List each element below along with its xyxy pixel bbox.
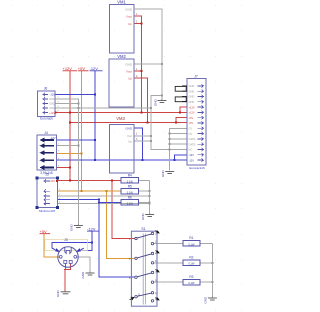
junction +5V rail / R5 net	[81, 190, 83, 192]
wire J4 pin5 +12V	[56, 167, 70, 169]
svg-text:J6: J6	[44, 87, 48, 91]
junction GND branch / VM3 Up	[150, 140, 152, 142]
svg-text:CV: CV	[189, 132, 193, 136]
svg-text:Up: Up	[128, 22, 132, 26]
connector J6	[38, 87, 60, 121]
wire resistor ground bus R1-R3	[211, 244, 213, 297]
svg-text:-12V: -12V	[87, 226, 96, 231]
wire switch throw3 to R3	[154, 281, 183, 283]
svg-text:VM2: VM2	[117, 54, 126, 59]
svg-text:0.1W: 0.1W	[188, 242, 195, 246]
supply flag +5V at DIN	[40, 229, 51, 234]
junction GND branch / VM3 Vcc	[150, 135, 152, 137]
junction R6 net / J5 pin4	[98, 199, 100, 201]
wire J7 pin12 stub	[170, 143, 187, 145]
wire GND branch to VM3 Vcc/Up	[134, 95, 162, 141]
junction GND branch / J6 pin4 net	[150, 107, 152, 109]
wire -12V flag to DIN routing	[79, 231, 93, 251]
junction VM1 net / +12V net	[141, 111, 143, 113]
junction +12V rail / J4 pin5	[69, 167, 71, 169]
svg-text:Vcc: Vcc	[127, 134, 133, 138]
svg-text:0.1W: 0.1W	[188, 262, 195, 266]
svg-text:R4: R4	[128, 174, 132, 178]
svg-text:-12V: -12V	[90, 66, 99, 71]
svg-text:GND: GND	[189, 95, 195, 99]
jumper bridge J7 pins 1-2	[175, 86, 187, 91]
junction VM2 Up / +5V net	[147, 121, 149, 123]
svg-text:-12V: -12V	[50, 136, 56, 140]
junction VM1 net / Up	[141, 23, 143, 25]
junction J6 GND drop / pin3	[77, 103, 79, 105]
junction GND bundle / pin10	[169, 133, 171, 135]
wire J6 pin1 -12V	[56, 94, 95, 96]
svg-text:J3: J3	[64, 238, 68, 242]
switch pole 3	[129, 270, 159, 284]
svg-text:R1: R1	[189, 236, 193, 240]
frame highlight around DIN	[45, 240, 88, 251]
junction -12V rail / J4 pin1	[94, 139, 96, 141]
junction VM GND branch	[161, 94, 163, 96]
junction R5 net / switch feed	[106, 190, 108, 192]
svg-text:+12V: +12V	[49, 179, 55, 183]
ground symbol near VM blocks	[154, 99, 167, 107]
junction +12V rail / R4 net	[69, 179, 71, 181]
wire switch pole2 feed	[107, 191, 135, 258]
wire -12V long net to J7 pin14	[56, 159, 187, 161]
wire J4 pin1 -12V	[56, 139, 95, 141]
resistor R4	[121, 174, 139, 184]
wire VM3 Vcc stub	[134, 135, 151, 137]
junction VM GND net	[161, 63, 163, 65]
svg-text:GND: GND	[189, 89, 195, 93]
svg-text:0.1W: 0.1W	[127, 190, 134, 194]
svg-text:GND: GND	[70, 224, 74, 232]
wire J7 pin10 stub	[170, 133, 187, 135]
svg-text:GND: GND	[125, 7, 133, 11]
voltmeter VM1	[109, 0, 141, 53]
svg-text:0.1W: 0.1W	[127, 201, 134, 205]
svg-text:GND: GND	[49, 102, 55, 106]
connector J4	[37, 131, 60, 175]
wire switch throw1 to R1	[154, 243, 183, 245]
wire R4 right stub	[139, 179, 150, 181]
svg-text:GND: GND	[56, 290, 60, 298]
svg-text:Vout: Vout	[126, 14, 132, 18]
wire J7 pin9 to GND bundle	[170, 128, 187, 170]
ground symbol below DIN	[56, 290, 71, 298]
ground symbol below J6 GND drop	[70, 224, 83, 232]
wire resistor ground bus R4-R6	[149, 180, 151, 213]
wire DIN right pin to GND	[77, 257, 90, 272]
wire J6 pin2 GND	[56, 99, 79, 224]
svg-text:-12V: -12V	[189, 153, 195, 157]
svg-text:GATE: GATE	[189, 137, 196, 141]
svg-text:R3: R3	[189, 275, 193, 279]
svg-text:R6: R6	[128, 196, 132, 200]
junction R6 net / switch pole3 feed	[98, 201, 100, 203]
wire -12V rail vertical	[94, 71, 96, 161]
wire J6 pin3 GND	[56, 103, 79, 105]
svg-text:GND: GND	[49, 106, 55, 110]
junction -12V rail / long net	[94, 159, 96, 161]
wire R6 net	[99, 201, 121, 203]
ground symbol for R1-R3	[204, 296, 217, 304]
resistor R2	[183, 256, 200, 266]
voltmeter VM3	[110, 116, 138, 173]
junction R ground bus / J5 pin5	[149, 203, 151, 205]
svg-text:S1: S1	[141, 227, 145, 231]
svg-text:Eurorack: Eurorack	[40, 117, 53, 121]
svg-text:R2: R2	[189, 256, 193, 260]
svg-text:NC: NC	[189, 148, 193, 152]
resistor R6	[121, 196, 139, 206]
svg-text:+5V: +5V	[78, 66, 86, 71]
svg-text:VM1: VM1	[117, 0, 126, 5]
junction J6 GND drop / J4 pin2	[77, 145, 79, 147]
wire VM1 Vout/Up to +12V net	[134, 16, 142, 112]
junction R ground bus / J5 pin3	[149, 195, 151, 197]
svg-text:CV: CV	[189, 127, 193, 131]
DIN connector J3	[52, 238, 84, 267]
switch pole 4	[130, 292, 160, 302]
wire R6 right stub	[139, 201, 150, 203]
junction VM1 net / VM2 Vout	[141, 70, 143, 72]
connector J7	[187, 74, 206, 170]
wire +12V net horizontal to J7 pin5/6	[56, 111, 187, 113]
wire R2 right stub	[200, 262, 213, 264]
junction R ground bus / R6	[149, 201, 151, 203]
resistor R5	[121, 184, 139, 194]
svg-text:J4: J4	[44, 131, 48, 135]
switch pole 2	[129, 251, 159, 264]
junction J6 GND drop / pin4	[77, 107, 79, 109]
wire VM2 Vout stub	[134, 70, 142, 72]
ground symbol right of DIN	[81, 271, 95, 279]
wire J5 pin4 -12V	[57, 199, 99, 201]
junction R1-R3 bus / R2	[211, 262, 213, 264]
junction +5V rail / J4 pin3	[81, 153, 83, 155]
wire J7 pin7 jog	[176, 118, 187, 123]
wire J6 pin4 GND long	[56, 107, 151, 109]
svg-text:0.1W: 0.1W	[127, 179, 134, 183]
wire DIN bottom pins to ground	[65, 264, 67, 270]
svg-text:-12V: -12V	[50, 93, 56, 97]
jumper bridge J7 pins 3-4	[175, 97, 187, 102]
junction J7 pin7 jog	[175, 121, 177, 123]
svg-text:GND: GND	[154, 99, 158, 107]
junction GND bundle / pin13	[169, 149, 171, 151]
wire R4 net from J5 pin1	[57, 179, 121, 181]
wire +5V rail vertical	[81, 71, 83, 192]
wire J5 pin3 GND	[57, 195, 149, 197]
switch pole 1	[129, 231, 159, 245]
wire J7 pin13 to GND branch	[151, 141, 187, 149]
svg-text:+5V: +5V	[189, 116, 194, 120]
svg-text:Vout: Vout	[126, 70, 132, 74]
wire VM2 Up to +5V net	[134, 78, 148, 122]
wire switch throw2 to R2	[154, 262, 183, 264]
junction -12V DIN routing	[91, 241, 93, 243]
svg-text:GND: GND	[125, 126, 133, 130]
junction GND bundle / pin12	[169, 143, 171, 145]
wire +5V to DIN pin	[44, 234, 59, 258]
svg-text:GND: GND	[125, 63, 133, 67]
junction R4 net / switch feed	[111, 179, 113, 181]
wire switch pole3 feed	[99, 200, 135, 278]
svg-text:VM3: VM3	[116, 116, 125, 121]
ground symbol for R4-R6	[141, 213, 154, 221]
supply flag -12V top	[90, 66, 103, 71]
svg-text:GND: GND	[161, 170, 165, 178]
grid dots	[12, 5, 242, 311]
junction J7 pin5 jog	[179, 111, 181, 113]
junction R ground bus / R5	[149, 190, 151, 192]
supply flag +12V top	[63, 66, 78, 71]
resistor R1	[183, 236, 200, 246]
junction +12V rail / +5V net corner	[69, 121, 71, 123]
wire switch pole1 feed	[112, 180, 135, 238]
wire R1 right stub	[200, 243, 213, 245]
wire J7 pin13 jog	[175, 155, 187, 160]
resistor R3	[183, 275, 200, 285]
voltmeter VM2	[109, 54, 138, 107]
svg-text:Up: Up	[128, 140, 132, 144]
svg-text:MiniConn05: MiniConn05	[39, 209, 55, 213]
svg-text:+5V: +5V	[189, 121, 194, 125]
wire J7 pin11 stub	[170, 138, 187, 140]
svg-text:GND: GND	[141, 213, 145, 221]
wire J5 pin5 GND	[57, 203, 149, 205]
svg-text:+12V: +12V	[189, 111, 195, 115]
svg-text:+12V: +12V	[189, 105, 195, 109]
svg-text:GATE: GATE	[189, 142, 196, 146]
wire R5 right stub	[139, 190, 150, 192]
ground symbol for J7 CV/GATE bundle	[161, 170, 174, 178]
wire J7 pin5 jog	[180, 107, 187, 112]
switch S1	[131, 227, 157, 306]
svg-text:GND: GND	[189, 84, 195, 88]
junction GND bundle / pin11	[169, 138, 171, 140]
wire VM1 GND	[134, 9, 162, 99]
connector J5	[35, 172, 61, 213]
junction VM3 GND / -12V net	[142, 159, 144, 161]
wire R3 right stub	[200, 281, 213, 283]
junction +12V rail / J6 pin5	[69, 111, 71, 113]
svg-text:-12V: -12V	[189, 158, 195, 162]
svg-text:R5: R5	[128, 184, 132, 188]
svg-text:J5: J5	[45, 172, 49, 176]
supply flag +5V top	[78, 66, 89, 71]
svg-text:GND: GND	[204, 296, 208, 304]
junction -12V rail / J6 pin1	[94, 94, 96, 96]
svg-text:Eurorack16: Eurorack16	[189, 166, 205, 170]
svg-text:+5V: +5V	[40, 229, 48, 234]
svg-text:+12V: +12V	[63, 66, 73, 71]
wire J4 pin3 +5V	[56, 153, 81, 155]
wire VM2 GND	[134, 63, 162, 65]
supply flag -12V at DIN	[87, 226, 99, 231]
svg-text:+12V: +12V	[49, 111, 55, 115]
svg-text:Up: Up	[128, 76, 132, 80]
wire J4 pin2 GND	[56, 145, 78, 147]
junction J7 pin14 jog	[174, 159, 176, 161]
svg-text:0.1W: 0.1W	[188, 281, 195, 285]
svg-text:J7: J7	[194, 74, 198, 78]
wire +12V rail vertical	[69, 71, 71, 181]
svg-text:GND: GND	[189, 100, 195, 104]
wire R5 net	[57, 190, 121, 192]
svg-text:GND: GND	[81, 271, 85, 279]
svg-text:GND: GND	[49, 97, 55, 101]
junction R1-R3 bus / R3	[211, 281, 213, 283]
wire +5V net horizontal to J7 pin7/8	[70, 121, 187, 123]
wire VM3 GND pin to -12V net	[134, 128, 143, 160]
wire VM1 Up stub	[134, 23, 142, 25]
